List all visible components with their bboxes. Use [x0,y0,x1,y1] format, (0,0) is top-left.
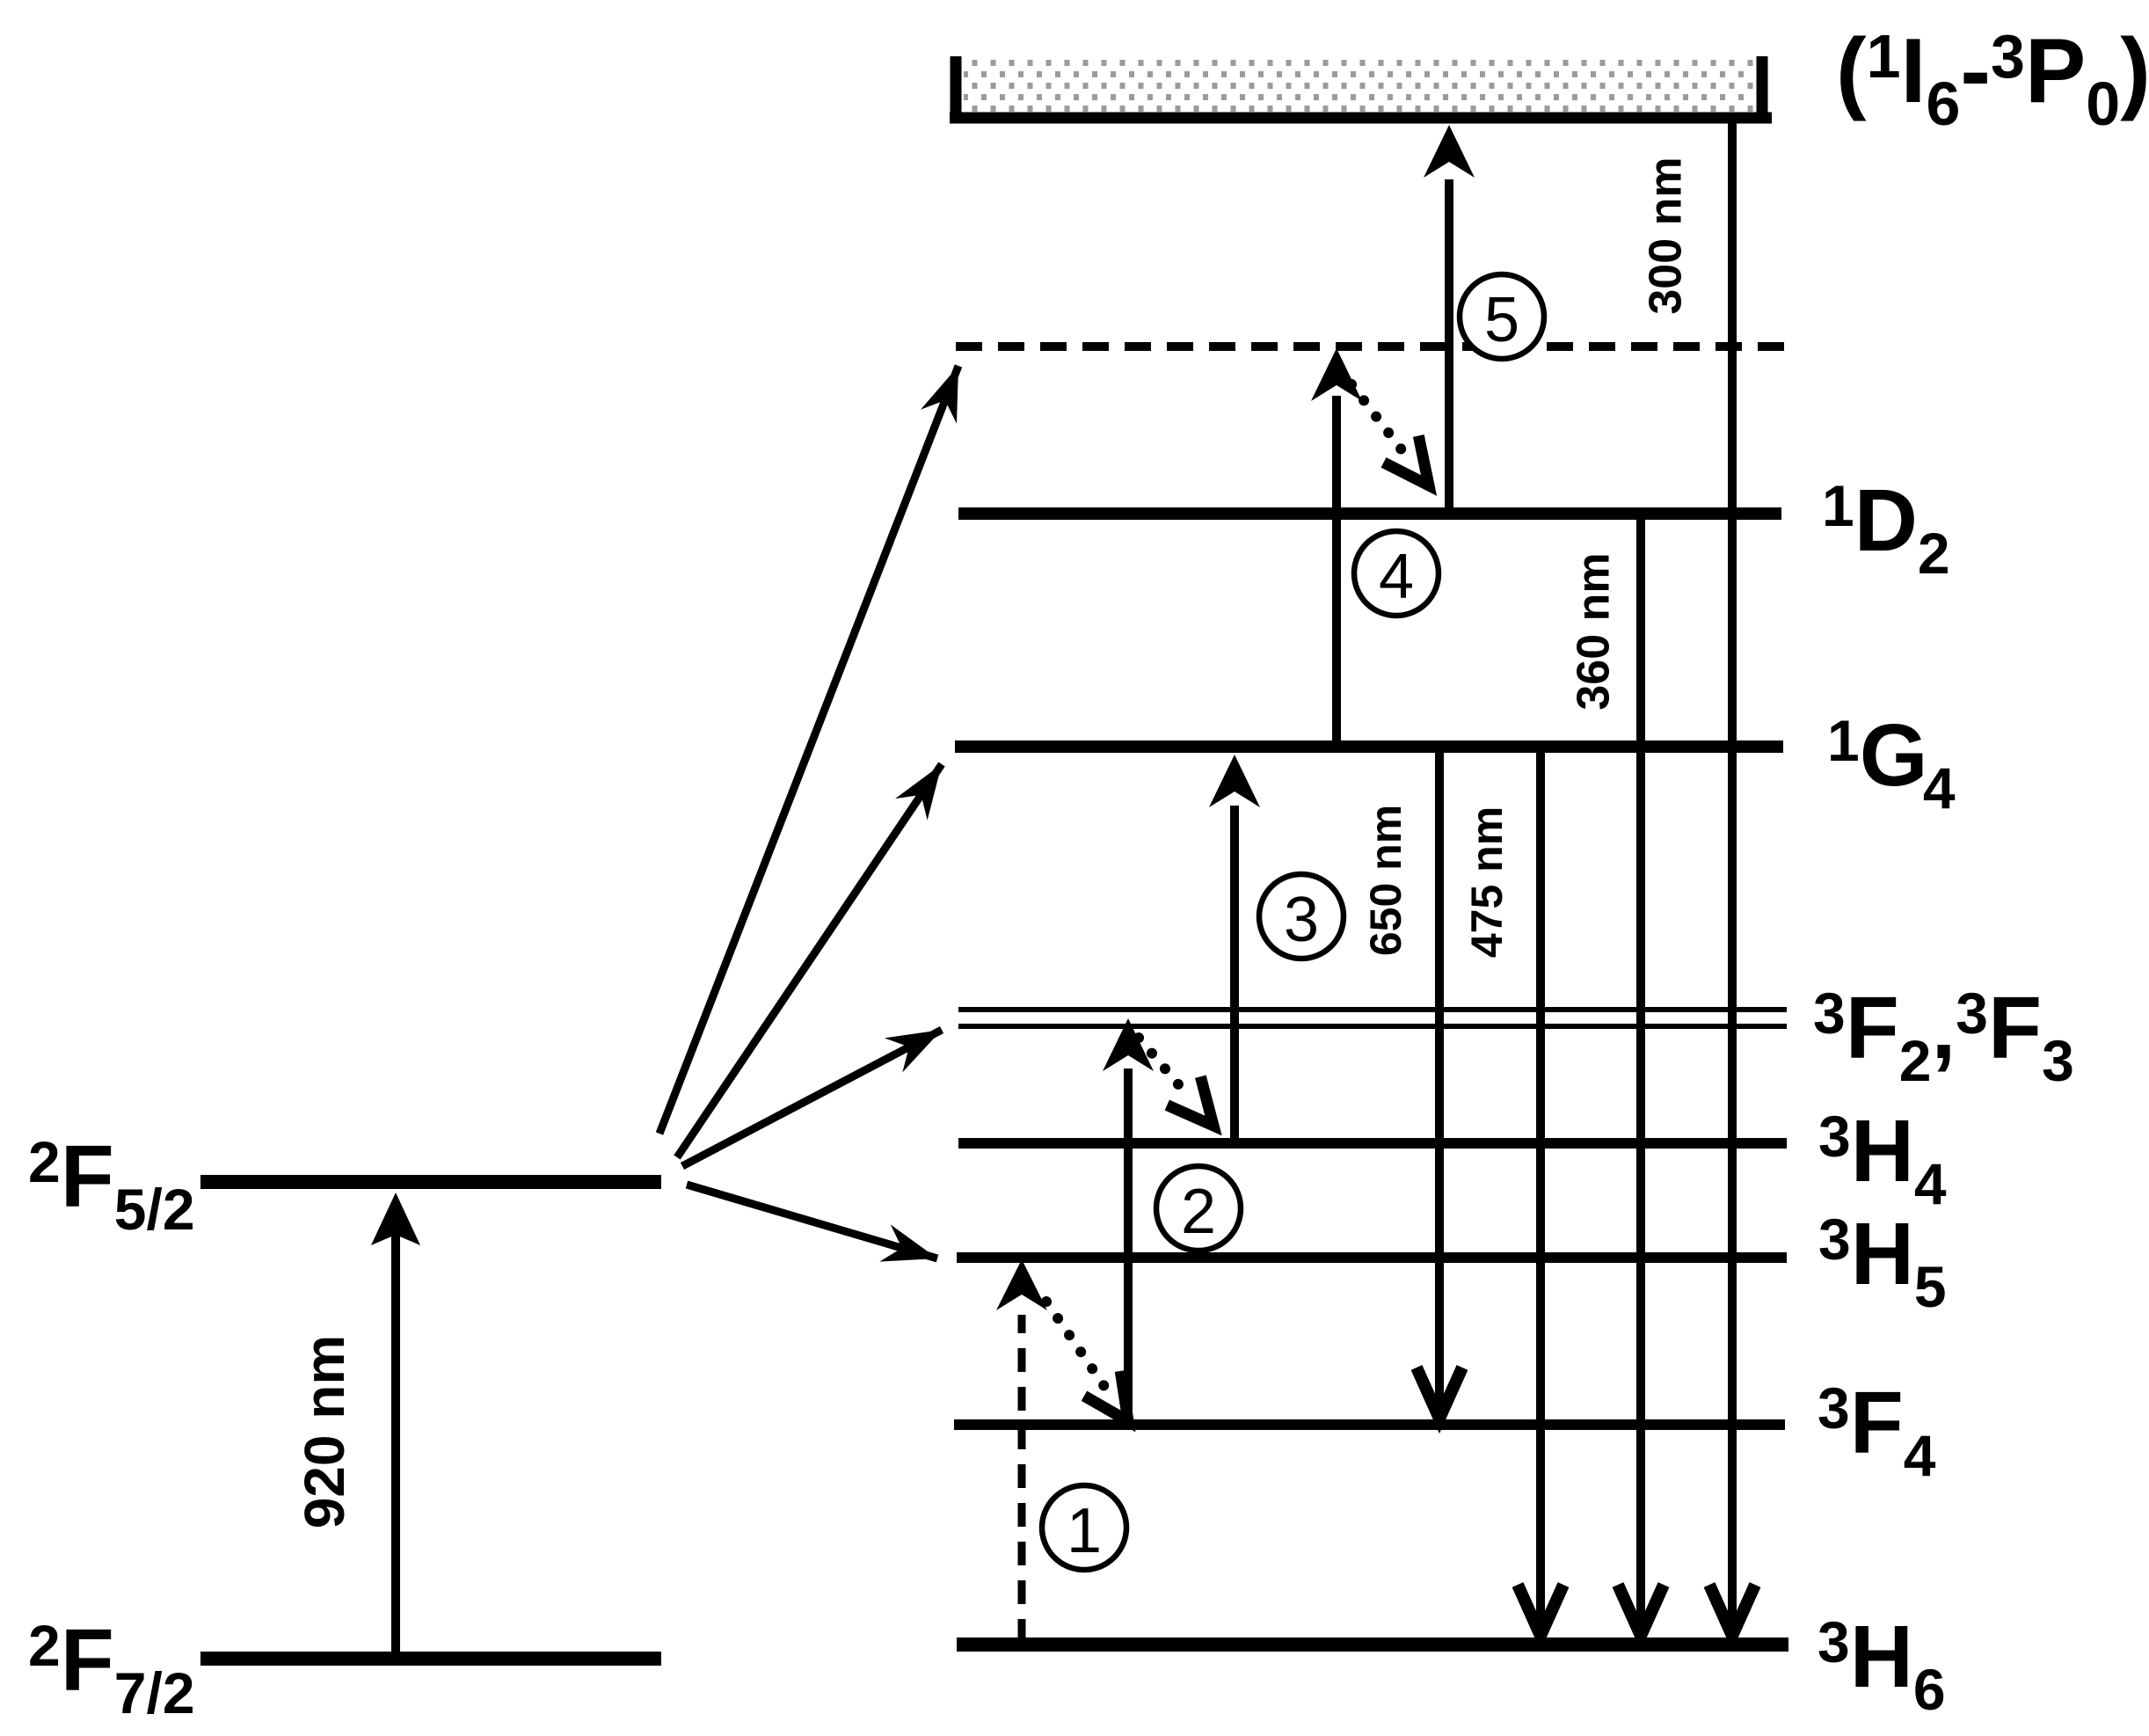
svg-text:650 nm: 650 nm [1361,805,1410,956]
svg-text:1: 1 [1827,708,1860,773]
svg-text:2: 2 [28,1613,61,1678]
svg-text:): ) [2120,20,2149,122]
svg-text:2: 2 [28,1129,61,1194]
svg-text:2: 2 [1918,521,1950,586]
svg-text:2: 2 [1899,1028,1932,1093]
svg-text:7/2: 7/2 [114,1660,195,1725]
svg-text:475 nm: 475 nm [1462,806,1512,958]
svg-text:6: 6 [1913,1657,1946,1722]
svg-text:P: P [2025,20,2086,122]
svg-text:I: I [1901,20,1927,122]
svg-text:4: 4 [1923,755,1956,821]
svg-text:H: H [1851,1205,1914,1303]
svg-text:D: D [1854,471,1918,570]
svg-text:6: 6 [1926,69,1960,138]
svg-text:H: H [1850,1608,1913,1706]
svg-text:F: F [1850,1374,1904,1472]
svg-text:F: F [61,1611,114,1710]
svg-text:1: 1 [1067,1496,1102,1566]
svg-text:0: 0 [2086,69,2120,138]
svg-text:-: - [1960,20,1991,122]
svg-text:F: F [1988,979,2042,1077]
svg-text:2: 2 [1181,1177,1216,1247]
svg-text:4: 4 [1914,1151,1947,1216]
svg-text:3: 3 [1818,1609,1850,1674]
svg-text:3: 3 [1818,1104,1851,1169]
svg-text:F: F [61,1127,114,1226]
svg-text:300 nm: 300 nm [1641,157,1692,314]
svg-text:3: 3 [2042,1028,2074,1093]
svg-text:G: G [1860,706,1928,805]
svg-text:F: F [1846,979,1899,1077]
svg-text:3: 3 [1956,981,1988,1046]
svg-text:4: 4 [1904,1423,1936,1488]
svg-text:1: 1 [1867,22,1901,91]
svg-text:3: 3 [1813,981,1846,1046]
svg-text:,: , [1931,979,1956,1077]
svg-text:3: 3 [1284,885,1319,955]
svg-text:3: 3 [1991,22,2025,91]
svg-text:360 nm: 360 nm [1569,552,1620,710]
svg-text:5/2: 5/2 [114,1177,195,1242]
svg-text:(: ( [1836,20,1867,122]
svg-text:3: 3 [1818,1375,1850,1441]
svg-text:3: 3 [1818,1207,1851,1272]
svg-text:5: 5 [1914,1254,1947,1319]
svg-text:920 nm: 920 nm [293,1335,356,1529]
svg-text:H: H [1851,1102,1914,1200]
svg-text:5: 5 [1484,285,1519,355]
svg-text:4: 4 [1379,542,1414,612]
svg-text:1: 1 [1822,473,1854,538]
